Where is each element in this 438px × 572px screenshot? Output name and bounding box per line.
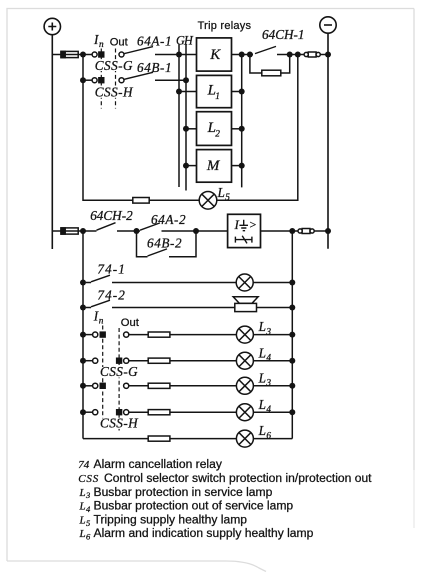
CSS Out circle L4b xyxy=(124,410,129,415)
label CSS-G (upper) xyxy=(95,58,133,73)
wire fuse to CSS xyxy=(78,54,92,56)
horn / buzzer xyxy=(233,297,258,312)
wire lamp to bus 74-1 xyxy=(253,282,292,284)
lamp return bus xyxy=(291,231,293,439)
wire 64CH-2 to node xyxy=(117,230,140,232)
wire L4b to resistor xyxy=(129,411,148,413)
wire L3a to resistor xyxy=(129,334,148,336)
CSS In circle L3b xyxy=(93,383,98,388)
label L5 xyxy=(217,185,231,203)
svg-text:K: K xyxy=(209,47,221,63)
wire resistor to lamp L3a xyxy=(170,334,237,336)
supervision relay contact symbol xyxy=(235,236,252,244)
wire row1 left xyxy=(52,54,61,56)
node H row2 xyxy=(183,77,189,83)
wire lamp L5 to riser xyxy=(217,55,298,201)
resistor R4a xyxy=(148,358,170,363)
svg-text:3: 3 xyxy=(85,490,90,500)
wire L3b to resistor xyxy=(129,385,148,387)
wire G to L1 xyxy=(179,91,197,93)
relay output bus xyxy=(241,55,243,188)
svg-text:74-1: 74-1 xyxy=(97,262,126,277)
wire fuse2 out xyxy=(78,230,96,232)
svg-text:CSS-H: CSS-H xyxy=(100,416,139,431)
node resistor branch top xyxy=(247,52,253,58)
node bus L4b xyxy=(289,409,295,415)
label In (lower) xyxy=(93,309,104,327)
svg-text:Busbar protection in service l: Busbar protection in service lamp xyxy=(94,485,273,499)
lamp L3a xyxy=(236,326,253,343)
node bus L3b xyxy=(289,383,295,389)
wire L1 right xyxy=(232,91,242,93)
CSS In circle L4b xyxy=(93,410,98,415)
svg-text:>: > xyxy=(250,218,257,232)
svg-text:GH: GH xyxy=(176,33,194,47)
svg-text:6: 6 xyxy=(266,431,271,441)
svg-text:Alarm and indication supply he: Alarm and indication supply healthy lamp xyxy=(94,526,314,540)
Out dashed selector line (lower) xyxy=(118,328,120,431)
label CSS-H (upper) xyxy=(95,85,134,100)
svg-text:n: n xyxy=(99,40,104,50)
link LK1 xyxy=(304,52,320,57)
wire lamp L3a to bus xyxy=(253,334,292,336)
In dashed selector line (upper) xyxy=(100,49,102,109)
svg-text:L: L xyxy=(79,487,86,499)
svg-text:4: 4 xyxy=(266,354,271,364)
wire L3b stub xyxy=(83,385,93,387)
resistor R3b xyxy=(148,383,170,388)
svg-text:CSS-H: CSS-H xyxy=(95,85,134,100)
svg-text:L: L xyxy=(258,319,266,334)
wire L2 right xyxy=(232,128,242,130)
node negative bus row1 xyxy=(325,52,331,58)
wire 64A-1 to K xyxy=(155,54,197,56)
node bus 74-1 xyxy=(289,280,295,286)
svg-text:64CH-1: 64CH-1 xyxy=(262,27,305,42)
node bus L1 xyxy=(239,89,245,95)
wire 64B-2 branch down xyxy=(137,231,148,257)
lamp L4a xyxy=(236,352,253,369)
svg-text:74: 74 xyxy=(78,459,90,471)
legend line L5 xyxy=(79,512,248,527)
CSS In circle L4a xyxy=(93,358,98,363)
label L4a xyxy=(258,345,272,363)
node resistor return xyxy=(287,52,293,58)
relay K xyxy=(197,38,232,71)
node G row1 xyxy=(176,52,182,58)
node bus 74-2 xyxy=(289,305,295,311)
lamp L3b xyxy=(236,377,253,394)
switch 64CH-1 xyxy=(255,46,276,53)
node bus L3a xyxy=(289,332,295,338)
resistor R2 L5 series xyxy=(133,198,149,204)
negative supply bus xyxy=(327,33,329,249)
legend line L4 xyxy=(79,499,294,514)
svg-text:M: M xyxy=(206,158,221,174)
svg-text:64A-2: 64A-2 xyxy=(151,212,186,227)
wire resistor to lamp L4a xyxy=(170,360,237,362)
resistor R6 xyxy=(148,436,170,441)
relay L1 xyxy=(197,75,232,107)
svg-text:3: 3 xyxy=(265,327,271,337)
node fuse2 output xyxy=(80,228,86,234)
legend line CSS xyxy=(78,471,372,485)
CSS Out circle L4a xyxy=(124,358,129,363)
svg-text:3: 3 xyxy=(265,379,271,389)
wire L4b stub xyxy=(83,411,93,413)
CSS In closed square L3a xyxy=(100,331,106,337)
resistor R3a xyxy=(148,332,170,337)
CSS-G In contact closed square xyxy=(98,51,104,57)
svg-text:Out: Out xyxy=(121,317,140,329)
node fuse1 output xyxy=(80,52,86,58)
svg-text:L: L xyxy=(258,345,266,360)
switch 64B-1 xyxy=(124,72,153,79)
label L3b xyxy=(258,370,272,388)
svg-text:Busbar protection out of servi: Busbar protection out of service lamp xyxy=(94,499,294,513)
battery negative terminal xyxy=(320,17,336,33)
svg-text:5: 5 xyxy=(225,193,230,203)
node L4a left xyxy=(80,358,86,364)
wire 64B-1 to H xyxy=(155,79,186,81)
node 64A/B-2 split xyxy=(134,228,140,234)
switch 64B-2 xyxy=(148,249,168,256)
switch 64CH-2 xyxy=(97,223,116,231)
svg-text:L: L xyxy=(79,514,86,526)
svg-text:Control selector switch protec: Control selector switch protection in/pr… xyxy=(104,471,372,485)
node H at M xyxy=(183,163,189,169)
svg-text:L: L xyxy=(258,423,266,438)
svg-text:5: 5 xyxy=(86,518,90,528)
svg-text:CSS-G: CSS-G xyxy=(100,364,138,379)
wire horn to bus xyxy=(257,307,293,309)
resistor R4b xyxy=(148,410,170,415)
node bus K xyxy=(239,52,245,58)
svg-text:CSS: CSS xyxy=(78,473,99,485)
node bus L2 xyxy=(239,126,245,132)
lamp L5 xyxy=(199,192,217,210)
CSS-H In contact closed square xyxy=(98,77,104,83)
svg-text:4: 4 xyxy=(266,405,271,415)
node row2 tap xyxy=(80,77,86,83)
CSS-H In contact circle xyxy=(92,78,97,83)
supervision relay U1 box xyxy=(228,214,261,247)
switch 74-2 xyxy=(86,300,110,307)
lamp 74 alarm xyxy=(236,274,253,291)
node 74-1 left xyxy=(80,280,86,286)
wire resistor to lamp L4b xyxy=(170,411,237,413)
Out dashed selector line (upper) xyxy=(115,49,117,109)
svg-text:L: L xyxy=(217,185,225,200)
CSS In circle L3a xyxy=(93,332,98,337)
node lamp bus top xyxy=(289,228,295,234)
svg-text:L: L xyxy=(79,501,86,513)
link LK2 xyxy=(298,229,314,234)
CSS In closed square L3b xyxy=(100,383,106,389)
node L5 riser top xyxy=(295,52,301,58)
legend line 74 xyxy=(78,457,223,471)
node 74-2 left xyxy=(80,305,86,311)
wire H to M xyxy=(186,165,197,167)
CSS Out closed square L4a xyxy=(116,358,122,364)
fuse F1 xyxy=(61,51,78,57)
wire 64B-2 branch up xyxy=(169,231,196,257)
fuse F2 xyxy=(61,228,78,234)
switch 64A-2 xyxy=(140,223,160,230)
CSS Out circle L3b xyxy=(124,383,129,388)
lamp L4b xyxy=(236,404,253,421)
wire link to negative bus xyxy=(320,54,328,56)
svg-text:I: I xyxy=(234,217,240,232)
switch 74-1 xyxy=(86,275,110,282)
svg-text:Trip relays: Trip relays xyxy=(198,20,252,32)
wire 64CH-1 right xyxy=(277,54,304,56)
wire resistor to lamp L5 xyxy=(149,199,199,201)
node bus L4a xyxy=(289,358,295,364)
In dashed selector line (lower) xyxy=(102,326,104,431)
label In (upper) xyxy=(93,32,104,50)
node L4b left xyxy=(80,409,86,415)
wire H to L2 xyxy=(186,128,197,130)
node 64A/B-2 join xyxy=(193,228,199,234)
CSS-G Out contact circle xyxy=(119,52,124,57)
CSS-H Out contact circle xyxy=(119,78,124,83)
wire 74-1 to lamp xyxy=(112,282,236,284)
wire relay box to lamp bus xyxy=(261,230,299,232)
node bus M xyxy=(239,163,245,169)
svg-text:2: 2 xyxy=(215,130,220,140)
CSS-G In contact circle xyxy=(92,52,97,57)
wire lamp L4b to bus xyxy=(253,411,292,413)
supervision relay symbol I earth > xyxy=(234,217,257,232)
wire L6 row xyxy=(83,438,148,440)
node L3a left xyxy=(80,332,86,338)
svg-text:1: 1 xyxy=(215,92,220,102)
CSS Out closed square L4b xyxy=(116,409,122,415)
svg-text:64B-1: 64B-1 xyxy=(137,60,172,75)
label L6 xyxy=(258,423,272,441)
svg-text:L: L xyxy=(79,528,86,540)
label CSS-H (lower) xyxy=(99,416,139,431)
node H line xyxy=(185,45,187,191)
label L4b xyxy=(258,397,272,415)
wire L4a to resistor xyxy=(129,360,148,362)
wire link2 to negative bus xyxy=(314,230,328,232)
wire L5 feed riser xyxy=(83,55,133,201)
wire L4a stub xyxy=(83,360,93,362)
svg-text:L: L xyxy=(258,370,266,385)
legend line L3 xyxy=(79,485,273,500)
wire lamp L4a to bus xyxy=(253,360,292,362)
positive supply bus xyxy=(51,35,53,249)
svg-text:64B-2: 64B-2 xyxy=(147,235,182,250)
relay L2 xyxy=(197,112,232,146)
svg-text:64A-1: 64A-1 xyxy=(137,33,172,48)
wire resistor to lamp L6 xyxy=(170,438,237,440)
legend line L6 xyxy=(79,526,314,541)
wire resistor to lamp L3b xyxy=(170,385,237,387)
resistor R1 parallel branch xyxy=(250,55,290,76)
svg-text:64CH-2: 64CH-2 xyxy=(90,208,133,223)
label L3a xyxy=(258,319,272,337)
lamp L6 xyxy=(236,430,253,447)
node negative bus row2 xyxy=(325,228,331,234)
wire L3a stub xyxy=(83,334,93,336)
node G line xyxy=(178,45,180,188)
svg-text:n: n xyxy=(99,317,104,327)
svg-text:Tripping supply healthy lamp: Tripping supply healthy lamp xyxy=(94,512,248,526)
wire row2 tap xyxy=(83,79,92,81)
wire 74-2 to horn xyxy=(112,307,235,309)
switch 64A-1 xyxy=(124,47,153,54)
wire lamp L6 to bus xyxy=(253,438,292,440)
wire row2 supply left xyxy=(52,230,61,232)
svg-text:L: L xyxy=(258,397,266,412)
wire lamp L3b to bus xyxy=(253,385,292,387)
node G at L1 xyxy=(176,89,182,95)
CSS Out circle L3a xyxy=(124,332,129,337)
wire K right xyxy=(232,54,254,56)
svg-text:74-2: 74-2 xyxy=(97,288,126,303)
label CSS-G (lower) xyxy=(99,364,138,379)
relay M xyxy=(197,150,232,183)
battery positive terminal xyxy=(44,18,60,34)
node H at L2 xyxy=(183,126,189,132)
svg-text:Out: Out xyxy=(110,37,129,49)
svg-text:CSS-G: CSS-G xyxy=(95,58,133,73)
svg-text:Alarm cancellation relay: Alarm cancellation relay xyxy=(94,457,223,471)
wire 64A-2 to node xyxy=(162,230,228,232)
wire M right xyxy=(232,165,242,167)
alarm section left bus xyxy=(82,231,84,439)
node L3b left xyxy=(80,383,86,389)
